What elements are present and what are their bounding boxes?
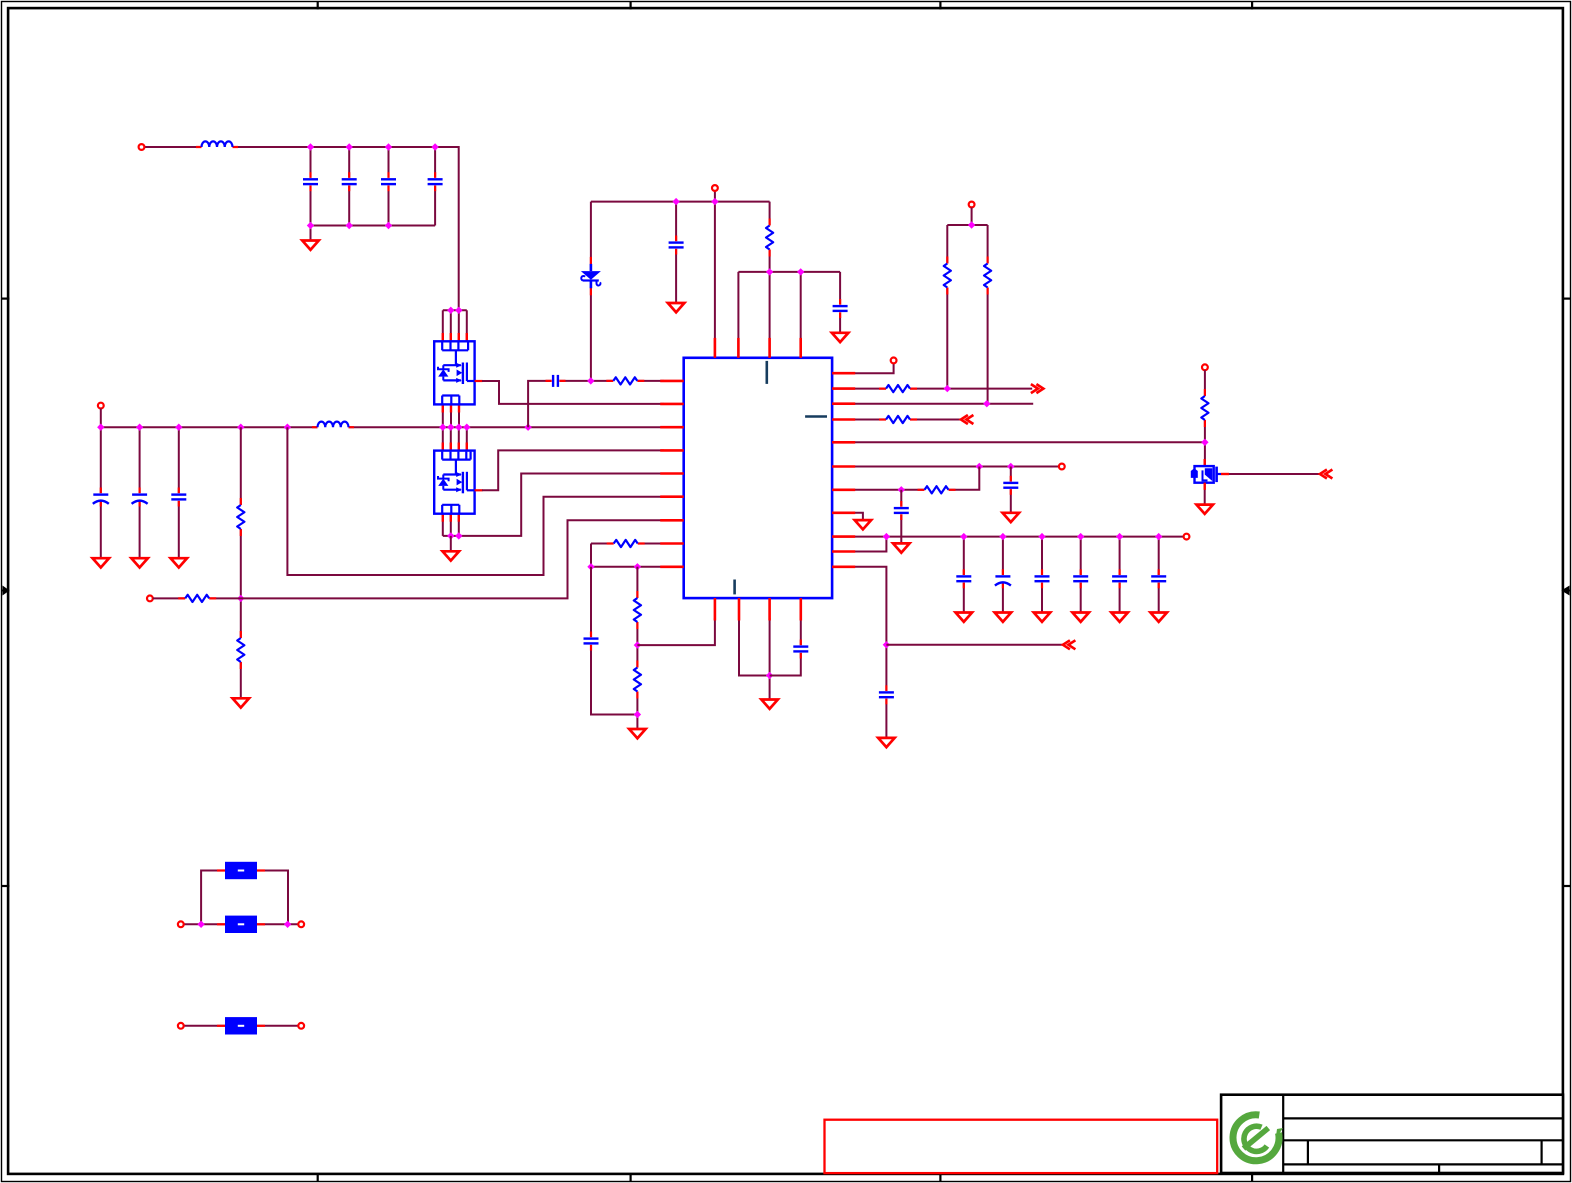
capacitor C19: [1073, 569, 1088, 588]
wire cap group bottom rail: [311, 225, 436, 227]
title block table: [1221, 1095, 1563, 1173]
wire pin9 row: [591, 566, 664, 568]
wire Q2 top pin a: [442, 427, 444, 450]
wire C13 chain: [900, 490, 902, 544]
terminal feedback input: [147, 596, 153, 602]
resistor R1: [766, 219, 773, 257]
wire Q1 top pin d: [466, 310, 468, 341]
wire rowB: [832, 388, 1032, 390]
ferrite bead FB3: [217, 1017, 265, 1034]
wire pin8 path: [590, 544, 592, 567]
transistor Q2 (low-side MOSFET pack): [434, 451, 474, 514]
junction bus 3: [175, 424, 182, 431]
wire FB2 row: [184, 923, 298, 925]
terminal pullup supply: [969, 202, 975, 208]
wire C18 branch: [1041, 537, 1043, 613]
wire rowC: [832, 403, 1033, 405]
wire rowA to terminal: [832, 363, 894, 373]
wire Q3 gate: [1229, 473, 1321, 475]
ground C16: [956, 613, 973, 622]
wire VCC stem: [714, 191, 716, 358]
wire Q2 top pin b: [450, 427, 452, 450]
wire rowJ riser: [832, 537, 886, 552]
wire top distribution: [591, 201, 770, 203]
junction rowB: [944, 385, 951, 392]
capacitor C7: [93, 488, 109, 507]
ground C19: [1072, 613, 1089, 622]
junction feedback node: [237, 595, 244, 602]
wire Q1 top pin c: [458, 310, 460, 341]
wire pullup top bar: [947, 224, 987, 226]
wire C21 branch: [1158, 537, 1160, 613]
wire pack feed row: [443, 309, 467, 311]
wire C17 branch: [1002, 537, 1004, 613]
junction top rail 3: [385, 143, 392, 150]
wire R2 branch: [946, 225, 948, 389]
wire C20 branch: [1119, 537, 1121, 613]
wire node to IC bottom pin a: [637, 618, 715, 645]
ground C5: [668, 303, 685, 312]
resistor R8: [607, 540, 645, 547]
wire input to bus corner: [144, 147, 459, 310]
capacitor C10 (series): [546, 375, 566, 387]
junction bottom rail 2: [346, 222, 353, 229]
pin stubs Q1 top: [443, 333, 467, 341]
wire rowK arrow line: [886, 644, 1064, 646]
junction rowF b: [1007, 463, 1014, 470]
wire bus to pin6 loop: [287, 427, 664, 575]
wire IC pin riser a: [737, 272, 739, 358]
wire bottom pin b: [739, 618, 770, 676]
junction top rail 2: [346, 143, 353, 150]
wire Q1 gate to pin2: [482, 381, 664, 404]
wire C2 branch: [348, 147, 350, 226]
capacitor C11: [584, 632, 599, 651]
wire pullup stem: [971, 208, 973, 226]
resistor R13: [918, 486, 956, 493]
ground C15: [878, 738, 895, 747]
junction bottom rail 3: [385, 222, 392, 229]
junction bottom node: [766, 672, 773, 679]
terminal P1 input: [139, 144, 145, 150]
junction rail C16: [960, 533, 967, 540]
capacitor C1: [303, 172, 318, 191]
ground C18: [1034, 613, 1051, 622]
wire Q2 bottom pin c: [458, 514, 460, 536]
junction bus pack 4: [463, 424, 470, 431]
wire zener branch: [590, 202, 592, 381]
signal arrow Q3 gate: [1320, 470, 1333, 479]
wire Q1 bottom pin b: [450, 404, 452, 427]
wire ground stem: [310, 226, 312, 242]
resistor R5: [237, 631, 244, 669]
junction bus pack 1: [439, 424, 446, 431]
junction top distribution 2: [711, 198, 718, 205]
IC U1 left pins: [660, 381, 684, 567]
IC U1 right pins: [832, 373, 855, 567]
wire pin1 path: [528, 381, 664, 427]
resistor R9: [634, 591, 641, 629]
wire C5 branch: [675, 202, 677, 304]
junction bottom rail 1: [307, 222, 314, 229]
junction FB b: [284, 921, 291, 928]
wire FB3 row: [184, 1025, 298, 1027]
signal arrow rowD: [961, 415, 974, 424]
capacitor C18: [1035, 569, 1050, 588]
right border centering arrow: [1561, 586, 1570, 596]
junction rail C20: [1116, 533, 1123, 540]
terminal rowF: [1059, 464, 1065, 470]
ground C7: [93, 558, 110, 567]
IC U1 (controller): [684, 358, 832, 598]
wire Q2 gate to pin4: [482, 450, 664, 490]
junction pullup: [968, 221, 975, 228]
junction bus 5: [284, 424, 291, 431]
wire C8 branch: [139, 427, 141, 558]
junction top row2 a: [766, 268, 773, 275]
capacitor C9: [171, 488, 186, 507]
wire top row2: [738, 271, 840, 273]
junction bus 2: [136, 424, 143, 431]
resistor R12: [879, 416, 917, 423]
resistor R10: [634, 661, 641, 699]
pin stubs Q2 bottom: [443, 514, 459, 522]
capacitor C3: [381, 172, 396, 191]
ground C13: [893, 543, 910, 552]
wire Q1 top pin b: [450, 310, 452, 341]
resistor R2: [944, 257, 951, 295]
capacitor C17: [995, 569, 1011, 588]
zener diode D1: [580, 257, 601, 295]
terminal FB left: [178, 921, 184, 927]
ground C8: [131, 558, 148, 567]
capacitor C4: [428, 172, 443, 191]
junction rail C18: [1038, 533, 1045, 540]
junction rail C19: [1077, 533, 1084, 540]
IC U1 bottom pins: [715, 598, 801, 620]
wire R4-R5 divider: [240, 427, 242, 699]
wire Q2 top pin d: [466, 427, 468, 450]
pin stubs Q1 bottom: [443, 404, 459, 412]
junction rowG: [898, 486, 905, 493]
junction rail start: [883, 533, 890, 540]
junction rowK node: [883, 641, 890, 648]
wire main bus: [101, 426, 664, 428]
wire Q2 bottom pin b: [450, 514, 452, 536]
wire FB1 loop: [201, 871, 288, 925]
wire rail stem: [100, 409, 102, 428]
capacitor C2: [342, 172, 357, 191]
revision note box (red): [825, 1120, 1218, 1173]
ground R5: [233, 698, 250, 707]
ground IC bottom: [761, 700, 778, 709]
junction pin9 a: [587, 563, 594, 570]
junction top rail 4: [431, 143, 438, 150]
wire rowK down: [832, 567, 886, 739]
pin stub Q1 gate: [475, 380, 483, 382]
junction R9-R10 node: [634, 641, 641, 648]
ground C9: [171, 558, 188, 567]
junction bus pack 2: [447, 424, 454, 431]
junction Q2 source row 2: [455, 532, 462, 539]
company logo (green): [1233, 1115, 1283, 1161]
terminal rowA: [891, 358, 897, 364]
pin stubs Q2 top: [443, 443, 467, 451]
capacitor C16: [956, 569, 971, 588]
ferrite bead FB1: [217, 862, 265, 879]
terminal Q3 drain supply: [1202, 364, 1208, 370]
junction rail C17: [999, 533, 1006, 540]
wire bottom pin c ground: [769, 618, 771, 700]
resistor R6: [178, 595, 216, 602]
inductor L1: [196, 141, 238, 149]
junction pin1 node: [587, 377, 594, 384]
junction top row2 b: [797, 268, 804, 275]
ferrite bead FB2: [217, 916, 265, 933]
inductor L2: [312, 422, 354, 430]
wire C6 branch: [839, 272, 841, 333]
wire R9-R10 chain: [636, 567, 638, 730]
junction top rail 1: [307, 143, 314, 150]
wire Q2 ground stem: [450, 536, 452, 552]
resistor R14: [1201, 389, 1208, 427]
resistor R3: [984, 257, 991, 295]
wire rowH: [832, 513, 863, 521]
pin stub Q3 gate: [1221, 473, 1229, 475]
junction FB a: [197, 921, 204, 928]
wire C7 branch: [100, 427, 102, 558]
wire Q1 bottom pin c: [458, 404, 460, 427]
signal arrow rowB: [1031, 384, 1044, 393]
ground Q2 source: [443, 551, 460, 560]
pin stub Q2 gate: [475, 489, 483, 491]
wire R3 branch: [987, 225, 989, 404]
junction bus 1: [97, 424, 104, 431]
capacitor C6: [833, 299, 848, 318]
ground C21: [1150, 613, 1167, 622]
ground input filter: [302, 241, 319, 250]
wire rowD: [832, 419, 962, 421]
ground C20: [1111, 613, 1128, 622]
wire Q1 bottom pin a: [442, 404, 444, 427]
capacitor C15: [879, 685, 894, 704]
junction chain bottom: [634, 711, 641, 718]
wire output rail: [832, 536, 1184, 538]
wire Q2 source row to pin5 riser: [443, 474, 664, 536]
wire Q1 top pin a: [442, 310, 444, 341]
wire IC pin riser b: [800, 272, 802, 358]
wire C4 branch: [434, 147, 436, 226]
transistor Q1 (high-side MOSFET pack): [434, 341, 474, 404]
junction rowC: [983, 400, 990, 407]
wire feedback row: [153, 520, 664, 598]
ground R10: [629, 729, 646, 738]
junction bus pin1 riser: [524, 424, 531, 431]
terminal 3V3 rail: [98, 403, 104, 409]
junction rowE Q3: [1201, 439, 1208, 446]
wire C1 branch: [310, 147, 312, 226]
pin stub Q3 source: [1203, 483, 1205, 490]
wire C16 branch: [963, 537, 965, 613]
ground rowH: [855, 520, 872, 529]
wire Q2 top pin c: [458, 427, 460, 450]
terminal FB3 right: [298, 1023, 304, 1029]
wire rowF: [832, 466, 1059, 468]
signal arrow rowK: [1063, 640, 1076, 649]
ground C14: [1003, 513, 1020, 522]
capacitor C13: [894, 501, 909, 520]
capacitor C20: [1112, 569, 1127, 588]
left border centering arrow: [2, 586, 10, 596]
capacitor C21: [1151, 569, 1166, 588]
wire R-divider branch: [769, 202, 771, 358]
wire C19 branch: [1080, 537, 1082, 613]
junction Q2 source row 1: [447, 532, 454, 539]
wire C9 branch: [178, 427, 180, 558]
terminal VCC: [712, 185, 718, 191]
wire rowG: [832, 467, 979, 490]
IC U1 top pins: [715, 338, 801, 358]
ground C6: [832, 333, 849, 342]
wire bottom pin d: [770, 618, 801, 676]
wire Q2 bottom pin a: [442, 514, 444, 536]
wire pin8 row: [591, 543, 664, 545]
wire Q3 source: [1204, 483, 1206, 505]
wire rowE long: [832, 441, 1205, 443]
junction bus pack 3: [455, 424, 462, 431]
terminal output rail: [1184, 534, 1190, 540]
capacitor C12: [793, 640, 808, 659]
resistor R7: [606, 377, 644, 384]
junction rail C21: [1155, 533, 1162, 540]
ground Q3: [1196, 505, 1213, 514]
resistor R4: [237, 498, 244, 536]
capacitor C8: [132, 488, 148, 507]
ground C17: [995, 613, 1012, 622]
capacitor C5: [669, 236, 684, 255]
wire C14 branch: [1010, 467, 1012, 514]
junction pack feed 1: [447, 307, 454, 314]
wire C3 branch: [388, 147, 390, 226]
capacitor C14: [1003, 476, 1018, 495]
wire C11 loop: [591, 567, 637, 715]
junction pin9 b: [634, 563, 641, 570]
resistor R11: [879, 385, 917, 392]
terminal FB right: [298, 921, 304, 927]
junction bus 4: [237, 424, 244, 431]
terminal FB3 left: [178, 1023, 184, 1029]
transistor Q3 (small MOSFET): [1191, 459, 1221, 483]
wire Q3 drain chain: [1204, 370, 1206, 466]
junction pack feed 2: [455, 307, 462, 314]
junction rowF a: [976, 463, 983, 470]
junction top distribution 1: [672, 198, 679, 205]
